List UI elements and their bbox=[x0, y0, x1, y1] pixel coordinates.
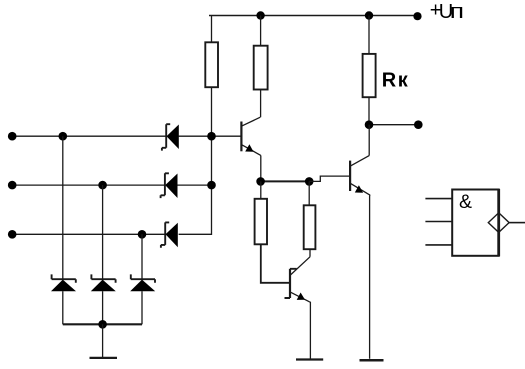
diode D1 (Schottky, input 1) bbox=[162, 124, 179, 150]
transistor T3 (Schottky) bbox=[285, 257, 311, 302]
input terminal 3 bbox=[8, 230, 17, 239]
node rail/Rk column bbox=[365, 11, 373, 19]
wire R2 bottom to T1 collector bbox=[260, 90, 262, 118]
wire input row 1 left bbox=[12, 135, 166, 137]
wire common node row1 to row2 bbox=[211, 136, 213, 185]
power terminal bbox=[413, 12, 421, 20]
wire column C upper bbox=[141, 234, 143, 279]
input terminal 2 bbox=[8, 181, 17, 190]
wire column B lower bbox=[102, 291, 104, 324]
node row3/column C bbox=[138, 230, 147, 239]
wire R4 top bbox=[308, 181, 310, 205]
wire column A lower bbox=[62, 291, 64, 324]
diode D4 (Schottky clamp, column A) bbox=[51, 274, 76, 291]
svg-text:п: п bbox=[450, 0, 464, 22]
logic gate box bbox=[452, 190, 499, 256]
wire R4 bottom to T3 collector bbox=[309, 249, 311, 257]
gate output line bbox=[509, 222, 525, 224]
node row2/common column bbox=[207, 181, 216, 190]
resistor R1 bbox=[205, 42, 218, 87]
svg-text:Rк: Rк bbox=[382, 70, 409, 92]
wire T1 emitter down to node bbox=[260, 155, 262, 181]
node clamp rail / ground bbox=[98, 320, 107, 329]
transistor T2 bbox=[350, 156, 370, 196]
wire Rk top bbox=[368, 16, 370, 54]
open-collector diamond bbox=[488, 213, 509, 233]
node row1/column A bbox=[59, 132, 68, 141]
wire T2 emitter to ground bbox=[369, 195, 372, 359]
wire node2 jog to T2 base bbox=[309, 176, 350, 181]
wire bottom clamp rail bbox=[63, 323, 142, 325]
wire input row 1 right to T1 base bbox=[179, 135, 242, 137]
wire column A upper bbox=[62, 136, 64, 279]
resistor Rk bbox=[363, 54, 376, 97]
transistor T1 bbox=[241, 117, 260, 155]
resistor R2 bbox=[254, 46, 268, 90]
wire R3 bottom to T3 base bbox=[261, 244, 289, 282]
input terminal 1 bbox=[8, 132, 17, 141]
resistor R3 bbox=[255, 199, 267, 245]
diode D6 (Schottky clamp, column C) bbox=[130, 274, 155, 291]
diode D5 (Schottky clamp, column B) bbox=[91, 274, 116, 291]
wire rail corner down to R1 top bbox=[211, 16, 213, 43]
gate input line 2 bbox=[425, 221, 452, 223]
ground left bar bbox=[90, 357, 118, 359]
wire Rk bottom to output node bbox=[368, 97, 370, 125]
resistor R4 bbox=[304, 205, 316, 249]
wire input row 3 left bbox=[12, 233, 165, 235]
wire input row 2 right bbox=[177, 184, 211, 186]
node T1 emitter / R3 bbox=[256, 177, 265, 186]
ground left stem bbox=[102, 324, 104, 357]
wire R2 top bbox=[260, 16, 262, 46]
node rail/R2 column bbox=[256, 11, 264, 19]
wire T3 emitter to ground bbox=[309, 302, 312, 359]
wire top power rail bbox=[209, 15, 418, 17]
wire output node to terminal bbox=[369, 124, 418, 126]
label +Un bbox=[430, 0, 464, 23]
node row1/common column bbox=[207, 132, 216, 141]
wire R1 bottom to common node bbox=[211, 87, 213, 136]
node output bbox=[365, 120, 374, 129]
gate input line 3 bbox=[425, 244, 452, 246]
wire column B upper bbox=[102, 185, 104, 279]
diode D2 (Schottky, input 2) bbox=[161, 173, 178, 198]
diode D3 (Schottky, input 3) bbox=[161, 222, 178, 247]
wire input row 2 left bbox=[12, 184, 165, 186]
node R4 / T2 base bbox=[305, 177, 314, 186]
logic gate box right edge bbox=[497, 189, 500, 256]
node row2/column B bbox=[98, 181, 107, 190]
ground middle bar bbox=[296, 358, 323, 360]
wire R3 top bbox=[260, 181, 262, 198]
wire column C lower bbox=[141, 291, 143, 324]
wire T2 collector up to output node bbox=[368, 125, 370, 156]
ground right bar bbox=[360, 359, 384, 362]
wire common node row2 down and left to diode D3 anode bbox=[179, 185, 212, 234]
wire node1 to node2 (thick) bbox=[261, 180, 310, 182]
gate input line 1 bbox=[425, 198, 452, 200]
output terminal bbox=[414, 120, 423, 129]
svg-text:&: & bbox=[459, 191, 472, 213]
